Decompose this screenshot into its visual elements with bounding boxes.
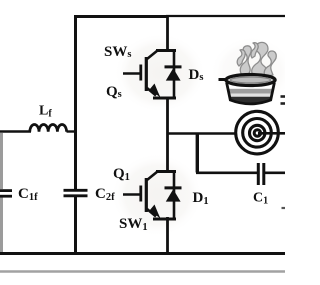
svg-text:SWs: SWs — [104, 44, 131, 60]
